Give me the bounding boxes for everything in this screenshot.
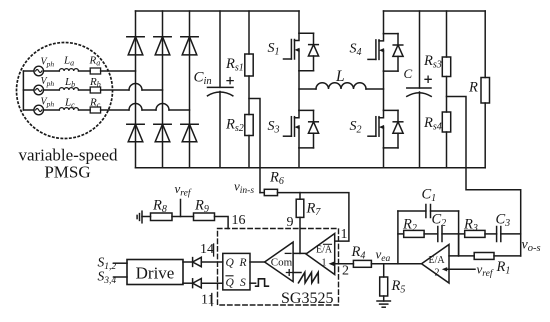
wire Com output to RS latch R input: [250, 261, 265, 263]
resistor Rs1 branch wire: [248, 11, 250, 54]
svg-text:PMSG: PMSG: [44, 163, 90, 182]
node vref (stub): [180, 200, 182, 217]
resistor R3: [465, 230, 485, 237]
wire pin 2 (E/A to R4): [334, 263, 354, 265]
hop (crossover) phase c over leg 1: [129, 104, 142, 111]
wire R2 to C2: [424, 233, 438, 235]
rectifier leg 3 wire: [189, 11, 191, 168]
comparator Com: [265, 242, 294, 282]
left H-bridge leg wire segments: [298, 11, 300, 168]
label Qbar: [226, 276, 235, 289]
wire Rs2 bottom to ground bus: [248, 136, 250, 168]
svg-text:E/A: E/A: [429, 255, 446, 266]
wire a source to inductor: [44, 70, 60, 72]
resistor R (load): [481, 78, 490, 104]
wire C2 to input node: [442, 233, 459, 235]
wire S1,2 to Drive: [114, 262, 128, 264]
switch S4 (MOSFET with antiparallel diode): [368, 34, 403, 72]
resistor Rb: [90, 87, 100, 93]
inductor L: [316, 83, 366, 89]
label E/A2 with bar: [429, 255, 446, 266]
wire c inductor to resistor: [79, 109, 91, 111]
inductor Lb: [59, 88, 78, 90]
resistor Rs4: [442, 112, 450, 132]
diode D1 (upper, leg 1): [127, 37, 144, 55]
wire phase b stub: [23, 89, 34, 91]
op-amp E/A (SG3525 error amplifier): [306, 234, 335, 275]
wire Q output (pin 14) to drive diode: [201, 261, 223, 263]
switch S2 (MOSFET with antiparallel diode): [368, 110, 403, 147]
svg-text:14: 14: [200, 242, 214, 257]
diode D5 (lower, leg 2): [154, 124, 171, 142]
neutral bus wire (left vertical of PMSG): [22, 71, 24, 110]
svg-text:9: 9: [287, 215, 294, 230]
resistor Rs1: [245, 54, 253, 76]
load resistor R branch wire: [484, 11, 486, 78]
diode D4 (lower, leg 1): [127, 124, 144, 142]
Drive block: [127, 260, 183, 285]
wire vin-s sense tap (Rs1/Rs2 midpoint down to R6): [249, 99, 260, 193]
PMSG dotted circle: [17, 43, 113, 139]
wire a inductor to resistor: [79, 70, 91, 72]
inductor La: [59, 69, 78, 71]
op-amp E/A2 (output voltage error amplifier): [422, 245, 450, 284]
wire Com inverting input to E/A output: [293, 252, 306, 254]
svg-text:Q: Q: [226, 277, 235, 289]
wire R4 to vea node and E/A2 output: [371, 263, 421, 265]
plus mark (Com non-inverting input): [286, 270, 292, 276]
wire phase a to rectifier leg 1: [101, 70, 136, 72]
diode D3 (upper, leg 3): [181, 37, 198, 55]
svg-text:C: C: [404, 66, 413, 81]
diode (pin 11 drive): [193, 279, 202, 288]
wire diode to Drive box (top): [183, 261, 193, 263]
svg-text:2: 2: [342, 264, 349, 279]
wire R5 top stub: [383, 264, 385, 277]
wire vref to E/A2: [447, 268, 475, 270]
wire R7 bottom to E/A output (pin 9): [299, 217, 301, 253]
wire R bottom to ground bus: [484, 103, 486, 168]
right H-bridge leg wire segments: [383, 11, 385, 168]
wire S input stub: [250, 282, 256, 284]
diode D6 (lower, leg 3): [181, 124, 198, 142]
switch S3 (MOSFET with antiparallel diode): [284, 110, 319, 147]
resistor R4: [353, 260, 371, 267]
wire E/A2 inverting input row (to R1): [449, 255, 474, 257]
capacitor C (output): [407, 11, 431, 168]
wire b inductor to resistor: [79, 89, 91, 91]
svg-text:Com: Com: [271, 257, 293, 269]
plus mark (Cin polarity): [227, 78, 233, 84]
wire phase b to rectifier leg 2 with hop over leg 1: [101, 89, 163, 91]
label E/A with bar: [316, 244, 333, 255]
resistor R6: [264, 189, 277, 195]
capacitor C1 (with wires): [398, 205, 459, 218]
resistor Rs3 branch wire: [446, 11, 448, 57]
wire bottom ground bus: [136, 167, 486, 169]
source Vph phase b: [34, 85, 44, 95]
wire R3 to C3: [485, 233, 497, 235]
resistor R7: [296, 199, 304, 217]
wire Rs1 to Rs2: [248, 76, 250, 115]
wire Com non-inverting stub: [293, 272, 301, 274]
resistor Rc: [90, 107, 100, 113]
variable-speed PMSG label: [18, 146, 118, 182]
wire R9 to pin 16 of SG3525: [215, 217, 229, 229]
inductor Lc: [59, 108, 78, 110]
E/A2 input arrow (vref into non-inverting input): [442, 267, 447, 271]
minus mark (Com inverting input): [285, 252, 291, 254]
wire phase c stub: [23, 109, 34, 111]
wire vea node up to compensation network: [397, 211, 399, 264]
svg-text:S: S: [240, 277, 246, 289]
svg-text:2: 2: [435, 268, 440, 279]
clock pulse waveform symbol: [256, 279, 269, 286]
wire b source to inductor: [44, 89, 60, 91]
resistor Rs3: [442, 57, 450, 77]
rectifier leg 1 wire: [135, 11, 137, 168]
capacitor C2: [438, 227, 442, 242]
wire compensation node vertical: [458, 211, 460, 256]
resistor R5: [380, 277, 388, 296]
plus mark (C polarity): [425, 76, 431, 82]
wire S3,4 to Drive: [114, 276, 128, 278]
svg-text:Drive: Drive: [136, 264, 175, 283]
resistor R1: [474, 253, 494, 260]
wire R8 to R9 with vref stub: [172, 216, 194, 218]
resistor Rs2: [245, 115, 253, 136]
wire vin-s to R6: [260, 192, 264, 194]
inductor L wire (right): [366, 88, 384, 90]
capacitor Cin: [208, 11, 234, 168]
source Vph phase a: [34, 66, 44, 76]
wire R7 top stub: [299, 193, 301, 200]
RS latch box: [223, 253, 250, 290]
wire Rs3 to Rs4: [446, 77, 448, 113]
capacitor C3: [497, 227, 501, 242]
sawtooth oscillator waveform symbol: [299, 272, 319, 282]
svg-text:16: 16: [232, 213, 246, 228]
inductor L wire (left): [299, 88, 316, 90]
resistor R8: [151, 213, 173, 221]
resistor R2: [404, 230, 424, 237]
svg-text:R: R: [239, 257, 247, 269]
svg-text:R: R: [468, 80, 478, 96]
diode (pin 14 drive): [193, 257, 202, 266]
pin 14 tick: [213, 244, 215, 256]
wire R2 row left stub: [398, 233, 404, 235]
wire ground to R8: [142, 216, 151, 218]
wire R1 to vo-s node: [494, 255, 521, 257]
wire vo-s sense tap (Rs3/Rs4 midpoint, routed to R1 node): [447, 97, 521, 257]
rectifier leg 2 wire: [162, 11, 164, 168]
wire output top bus: [384, 10, 486, 12]
wire input top bus: [136, 10, 300, 12]
resistor Ra: [90, 68, 100, 74]
wire Rs4 bottom to ground bus: [446, 132, 448, 168]
ground (below R5): [377, 301, 390, 307]
svg-text:Q: Q: [226, 257, 235, 269]
wire Qbar output (pin 11) to drive diode: [201, 282, 223, 284]
svg-text:1: 1: [322, 258, 327, 269]
svg-text:L: L: [335, 68, 345, 85]
wire phase a stub: [23, 70, 34, 72]
pin 11 tick: [211, 294, 213, 306]
wire node to R3: [459, 233, 465, 235]
E/A input arrow (pin 2 wire into non-inverting input): [329, 262, 334, 266]
wire R5 to ground: [383, 296, 385, 301]
diode D2 (upper, leg 2): [154, 37, 171, 55]
svg-text:E/A: E/A: [316, 245, 333, 256]
ground (pin 16 reference, rotated left): [137, 211, 142, 223]
switch S1 (MOSFET with antiparallel diode): [284, 33, 319, 70]
source Vph phase c: [34, 105, 44, 115]
svg-text:SG3525: SG3525: [281, 290, 333, 307]
SG3525 dashed box: [218, 229, 339, 306]
wire c source to inductor: [44, 109, 60, 111]
wire R6 output node to pin 1 entry: [278, 193, 349, 242]
hop (crossover) phase b over leg 1: [129, 84, 142, 91]
resistor R9: [194, 213, 215, 221]
wire input node down to E/A2 row: [458, 234, 460, 256]
wire diode to Drive box (bottom): [183, 282, 193, 284]
svg-text:1: 1: [341, 227, 348, 242]
wire phase c to rectifier leg 3 with hops over legs 1 and 2: [101, 109, 190, 111]
hop (crossover) phase c over leg 2: [156, 104, 169, 111]
svg-text:11: 11: [201, 293, 214, 308]
wire C3 to vo-s vertical: [501, 233, 521, 235]
